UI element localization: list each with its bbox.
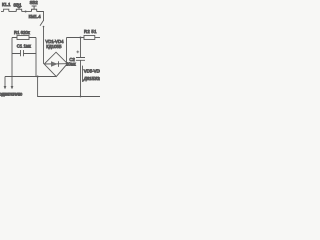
- wire: between K1.1 and SB1: [9, 11, 16, 13]
- svg-text:К1.1: К1.1: [2, 2, 11, 7]
- svg-text:R1 620к: R1 620к: [14, 30, 30, 35]
- svg-text:20мк: 20мк: [66, 61, 76, 66]
- arrow to motor (left): [4, 86, 7, 89]
- pushbutton SB1: [16, 7, 22, 11]
- capacitor C2 (polarized, plates): [76, 58, 85, 61]
- node junction dot: [25, 11, 27, 13]
- contact KM1.4 (diagonal blade in vertical wire): [40, 20, 44, 26]
- capacitor C1 (plates on bottom wire): [21, 50, 24, 56]
- wire: KM1.4 down to bridge left corner: [43, 26, 45, 64]
- wire: bus branch down and right bottom rail: [38, 77, 100, 97]
- svg-text:SB1: SB1: [13, 2, 22, 7]
- wire: R2 to right edge: [95, 37, 100, 39]
- wire: bottom bus: [5, 76, 56, 78]
- wire: right column down to bus: [35, 38, 37, 77]
- wire: left column down to motor arrow: [11, 38, 13, 89]
- svg-text:КД105Б: КД105Б: [46, 44, 62, 49]
- wire: left lead of top rail: [1, 11, 4, 13]
- wire: top side of RC block: [12, 37, 36, 39]
- svg-text:Д815Жи: Д815Жи: [83, 76, 100, 81]
- arrow to motor (right): [11, 86, 14, 89]
- diode symbol inside bridge: [44, 63, 67, 65]
- svg-text:VD5-VD6: VD5-VD6: [84, 68, 100, 73]
- node: blade pivot dot: [43, 26, 45, 28]
- node: C2 bottom junction dot: [80, 96, 82, 98]
- node: C2 top junction dot: [79, 36, 81, 38]
- svg-text:C1 1мк: C1 1мк: [17, 43, 31, 48]
- plus sign of C2: [76, 51, 79, 54]
- svg-text:одвигателю: одвигателю: [0, 91, 23, 96]
- wire: C2 top lead: [80, 38, 82, 58]
- wire: rail to R2: [67, 37, 85, 39]
- svg-text:SB2: SB2: [30, 0, 39, 5]
- node: bus junction dot: [37, 75, 39, 77]
- pushbutton SB2: [31, 6, 37, 12]
- wire: bus left end drop: [4, 77, 6, 89]
- wire: bottom side of RC block: [12, 53, 36, 55]
- diode bridge VD1-VD4 (diamond): [44, 52, 67, 76]
- wire: SB1 to SB2: [22, 11, 32, 13]
- resistor R1 (box): [17, 36, 29, 40]
- contact K1.1 (hump blade): [4, 9, 9, 11]
- svg-text:R2 51: R2 51: [84, 29, 97, 34]
- wire: bridge right corner up to top-right rail: [66, 38, 68, 63]
- zener stack edge line: [82, 66, 84, 82]
- wire: C2 bottom lead: [80, 60, 82, 96]
- resistor R2 (box): [84, 36, 95, 40]
- svg-text:КМ1.4: КМ1.4: [29, 14, 42, 19]
- wire: SB2 to right corner, down to KM1.4: [37, 12, 44, 21]
